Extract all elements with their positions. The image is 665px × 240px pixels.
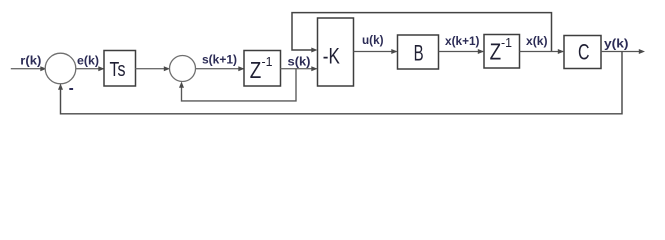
block C output matrix [564, 36, 601, 69]
summing junction S1 [45, 53, 76, 84]
wire s(k+1) S2 to Z1 [196, 68, 244, 70]
block K state feedback gain [318, 18, 354, 86]
block Z1 delay [244, 51, 281, 87]
svg-text:-1: -1 [262, 55, 273, 69]
svg-text:-K: -K [323, 43, 340, 68]
wire top feedback x(k) to K upper input [292, 13, 552, 52]
svg-text:-1: -1 [501, 36, 512, 50]
svg-text:Z: Z [490, 38, 502, 64]
minus sign for S1 feedback input [69, 88, 73, 90]
svg-text:s(k+1): s(k+1) [202, 53, 237, 67]
svg-text:C: C [578, 40, 590, 65]
svg-text:y(k): y(k) [604, 36, 629, 50]
svg-text:B: B [414, 40, 424, 65]
wire x(k+1) B to Z2 [439, 51, 484, 53]
svg-text:Z: Z [250, 57, 261, 83]
wire e(k) S1 to Ts [76, 68, 104, 70]
svg-text:x(k+1): x(k+1) [445, 34, 480, 48]
wire inner feedback s(k) branch to S2 [182, 69, 297, 101]
svg-text:x(k): x(k) [526, 34, 548, 48]
block B input matrix [398, 35, 439, 69]
svg-text:r(k): r(k) [20, 53, 41, 67]
summing junction S2 [170, 56, 196, 82]
wire s(k) Z1 to K lower input [281, 68, 317, 70]
svg-text:e(k): e(k) [77, 53, 99, 67]
svg-text:s(k): s(k) [288, 54, 311, 68]
wire outer feedback y branch to S1 [61, 52, 623, 114]
wire y(k) output [601, 51, 644, 53]
svg-text:u(k): u(k) [362, 33, 384, 47]
wire r(k) input [11, 68, 46, 70]
block Z2 delay [484, 35, 520, 69]
wire u(k) K to B [354, 51, 397, 53]
svg-text:Ts: Ts [110, 59, 126, 81]
wire Ts to S2 [136, 68, 169, 70]
wire x(k) Z2 to C [520, 51, 564, 53]
block Ts [104, 51, 136, 87]
